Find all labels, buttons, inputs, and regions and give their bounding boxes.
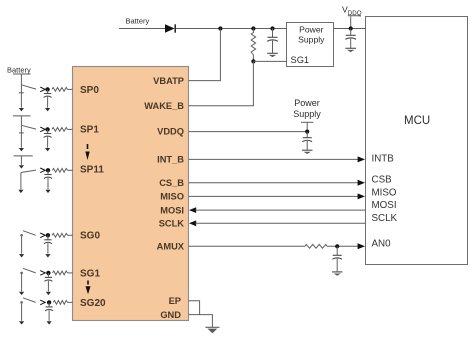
svg-text:SP0: SP0 <box>80 85 99 96</box>
svg-text:AMUX: AMUX <box>157 242 185 252</box>
MCU pin labels <box>372 154 398 250</box>
capacitor <box>47 273 49 277</box>
wire MOSI <box>189 207 196 213</box>
svg-text:MOSI: MOSI <box>372 200 397 211</box>
battery cell long plate <box>13 73 31 75</box>
switch <box>23 298 36 303</box>
node VDDQ pin junction <box>305 130 309 134</box>
ground <box>345 47 356 49</box>
svg-text:CS_B: CS_B <box>159 178 184 188</box>
node <box>46 271 50 275</box>
svg-text:SP11: SP11 <box>80 165 104 176</box>
wire <box>20 116 22 125</box>
node VDDQ rail <box>349 26 353 30</box>
node <box>46 168 50 172</box>
svg-text:VDDQ: VDDQ <box>157 127 184 137</box>
switch <box>21 170 36 172</box>
wire return <box>21 237 23 254</box>
wire GND <box>189 315 213 328</box>
wire VDDQ label down <box>350 17 352 29</box>
svg-text:MCU: MCU <box>404 115 430 127</box>
node pullup R top <box>251 26 255 30</box>
ground <box>205 326 219 328</box>
switch pivot <box>20 234 23 237</box>
svg-text:SP1: SP1 <box>80 125 99 136</box>
svg-text:SG20: SG20 <box>80 298 106 309</box>
capacitor <box>47 235 49 239</box>
arrow SP1..SP11 continuation <box>87 144 89 149</box>
svg-text:SCLK: SCLK <box>159 219 185 229</box>
IC left pin labels <box>80 85 106 309</box>
svg-text:Power: Power <box>299 25 323 35</box>
arrow SG1..SG20 continuation <box>87 281 89 285</box>
resistor <box>52 233 68 237</box>
wire battery to diode <box>119 28 165 30</box>
capacitor <box>47 89 49 93</box>
node <box>45 87 49 91</box>
svg-text:MOSI: MOSI <box>160 205 184 215</box>
switch <box>21 125 36 129</box>
resistor <box>52 88 68 92</box>
svg-text:GND: GND <box>160 310 181 320</box>
svg-text:SCLK: SCLK <box>372 213 398 224</box>
battery cell short plate <box>19 132 24 134</box>
power supply box PS1 <box>287 23 334 67</box>
capacitor C1 <box>272 29 274 38</box>
diode D1 <box>165 24 175 32</box>
wire VDDQ pin <box>189 131 308 133</box>
IC right pin labels <box>144 76 185 320</box>
svg-text:MISO: MISO <box>372 188 397 199</box>
wire <box>20 173 22 190</box>
switch pivot <box>20 272 23 275</box>
svg-text:Supply: Supply <box>298 35 325 45</box>
wire return <box>21 304 23 321</box>
wire diode to PS1 <box>176 28 287 30</box>
capacitor <box>48 302 50 306</box>
node AN0 filter <box>335 244 339 248</box>
svg-text:Power: Power <box>294 98 320 108</box>
ground <box>267 52 278 54</box>
wire MISO <box>189 195 359 197</box>
capacitor C3 <box>306 132 308 138</box>
switch <box>23 268 36 273</box>
wire R2 to AN0 <box>327 245 358 247</box>
node C1 top <box>270 26 274 30</box>
svg-text:SG0: SG0 <box>80 231 100 242</box>
wire SCLK <box>189 220 196 226</box>
svg-text:CSB: CSB <box>372 175 393 186</box>
node SG1/WAKE_B junction <box>251 59 255 63</box>
arrow stack end <box>18 190 23 193</box>
resistor <box>53 271 68 275</box>
resistor R1 pullup <box>251 29 255 62</box>
node <box>47 300 51 304</box>
svg-text:WAKE_B: WAKE_B <box>144 101 184 111</box>
ground <box>302 149 313 151</box>
main IC U1 cell-monitor <box>73 67 189 321</box>
arrow stack <box>19 108 24 111</box>
wire <box>20 156 22 165</box>
node VBATP junction <box>218 26 222 30</box>
capacitor <box>47 129 49 133</box>
battery cell long plate <box>13 115 31 117</box>
wire INT_B <box>189 158 359 160</box>
ground <box>332 271 343 273</box>
MCU <box>366 17 468 265</box>
resistor <box>52 168 67 172</box>
wire EP <box>189 301 200 315</box>
wire <box>20 85 22 108</box>
wire <box>20 125 22 147</box>
wire PS1 to MCU <box>334 28 366 30</box>
switch <box>21 85 36 89</box>
wire CS_B <box>189 182 359 184</box>
svg-text:INT_B: INT_B <box>157 155 184 165</box>
switch pivot <box>20 301 23 304</box>
node <box>45 127 49 131</box>
svg-text:Battery: Battery <box>126 17 150 26</box>
svg-text:Battery: Battery <box>7 65 31 74</box>
wire WAKE_B <box>189 61 254 105</box>
svg-text:EP: EP <box>169 296 181 306</box>
node <box>46 233 50 237</box>
svg-text:Supply: Supply <box>293 109 321 119</box>
svg-text:MISO: MISO <box>160 192 184 202</box>
capacitor C2 <box>350 29 352 36</box>
svg-text:INTB: INTB <box>372 154 395 165</box>
arrow stack <box>19 165 24 168</box>
wire AMUX <box>189 245 306 247</box>
arrow stack <box>19 148 24 151</box>
switch <box>23 231 36 236</box>
battery cell long plate <box>14 155 33 157</box>
capacitor <box>47 170 49 174</box>
svg-text:AN0: AN0 <box>372 239 392 250</box>
resistor <box>53 301 67 305</box>
wire return <box>21 274 23 291</box>
svg-text:VBATP: VBATP <box>153 76 184 86</box>
battery cell short plate <box>19 92 24 94</box>
terminal of power supply 2 <box>301 121 313 123</box>
resistor <box>52 128 68 132</box>
svg-text:SG1: SG1 <box>80 269 100 280</box>
svg-text:SG1: SG1 <box>291 55 310 65</box>
wire <box>20 74 22 85</box>
wire SG1 to PS1 <box>253 60 287 62</box>
wire VBATP <box>189 29 221 81</box>
resistor R2 <box>305 244 327 248</box>
capacitor C4 <box>336 246 338 255</box>
